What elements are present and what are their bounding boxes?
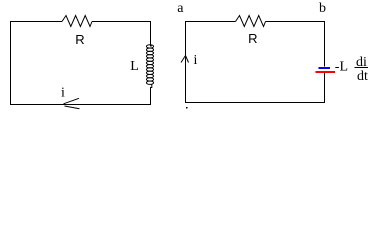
stray dot under node a wire [186, 107, 188, 109]
svg-text:dt: dt [357, 69, 368, 84]
current arrow i (right loop, pointing up): left barb [181, 56, 186, 63]
wire: top-left segment to resistor (right loop) [185, 21, 236, 23]
inductor L coil [146, 45, 153, 85]
current arrow i (left loop): lower barb [65, 106, 80, 109]
wire: left side of right loop [185, 21, 187, 103]
svg-text:L: L [130, 59, 139, 74]
resistor R (right loop) [236, 16, 266, 27]
wire: right side lower (from emf plates to bottom) [324, 73, 326, 104]
svg-text:-L: -L [335, 59, 348, 74]
wire: top-right segment from resistor to corner [266, 21, 326, 23]
emf plate (blue, short) [319, 67, 331, 69]
resistor R (left loop) [62, 16, 92, 27]
wire: top-right segment from resistor to corner [92, 21, 151, 23]
svg-text:R: R [248, 31, 257, 46]
wire: bottom of left loop [10, 104, 151, 106]
wire: left side of left loop [10, 21, 12, 105]
svg-text:b: b [319, 1, 326, 16]
current arrow i (left loop, pointing left): upper barb [64, 98, 80, 104]
wire: right side upper lead into inductor [151, 22, 152, 47]
svg-text:i: i [61, 85, 65, 100]
current arrow i (right loop): right barb [186, 56, 189, 63]
left circuit loop [10, 16, 154, 109]
svg-text:R: R [75, 32, 84, 47]
wire: top-left segment to resistor (left loop) [10, 21, 62, 23]
right circuit loop [181, 16, 325, 104]
wire: right side lower lead from inductor [151, 84, 152, 105]
svg-text:a: a [177, 1, 184, 16]
svg-text:i: i [194, 53, 198, 68]
wire: bottom of right loop [185, 102, 325, 104]
emf plate (red, long) [316, 71, 336, 73]
fraction bar [355, 67, 369, 69]
wire: right side upper (down to emf plates) [324, 22, 326, 67]
